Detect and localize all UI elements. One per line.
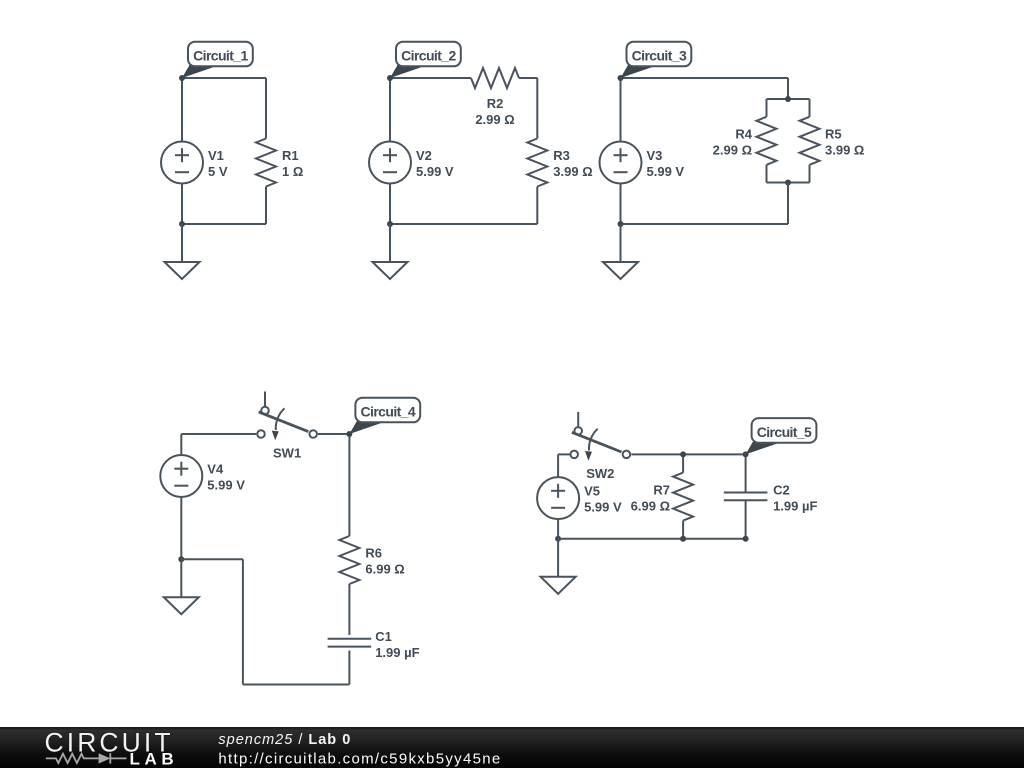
junction R7 bottom (680, 536, 686, 542)
wire bottom c2 (390, 223, 537, 225)
wire bottom c1 (182, 223, 266, 225)
svg-text:Circuit_3: Circuit_3 (632, 47, 687, 63)
svg-text:5.99 V: 5.99 V (647, 164, 685, 179)
node Circuit_2 anchor dot (387, 75, 393, 81)
wire V1 top lead (181, 78, 183, 142)
resistor R7 (673, 473, 693, 521)
wire R6 to C1 (348, 584, 350, 635)
ground (541, 539, 576, 594)
svg-text:LAB: LAB (130, 750, 179, 768)
wire R5 top lead (809, 99, 811, 117)
svg-text:5.99 V: 5.99 V (416, 164, 454, 179)
wire R3 bottom (536, 187, 538, 225)
junction (555, 536, 561, 542)
svg-text:5.99 V: 5.99 V (584, 500, 622, 515)
resistor R3 (527, 139, 547, 187)
switch SW1 left contact (257, 430, 265, 438)
switch SW2 right contact (623, 451, 631, 459)
wire C1 bottom lead (348, 651, 350, 685)
wire V5 top lead (557, 454, 559, 477)
wire C2 top lead (745, 454, 747, 492)
logo schematic line with resistor and diode (46, 753, 127, 763)
ground (165, 224, 200, 279)
junction (178, 556, 184, 562)
wire SW1 to node4 (318, 433, 349, 435)
wire parallel bottom bar (767, 182, 810, 184)
resistor R6 (339, 536, 359, 584)
svg-text:R5: R5 (825, 127, 842, 142)
voltage source V3 (600, 142, 642, 184)
switch SW2 top terminal stub (577, 412, 579, 427)
svg-text:R7: R7 (653, 483, 670, 498)
wire node2 to R2 (390, 77, 471, 79)
node Circuit_4 anchor dot (346, 431, 352, 437)
svg-text:V5: V5 (584, 484, 600, 499)
svg-text:Circuit_2: Circuit_2 (401, 47, 456, 63)
junction R7 top (680, 451, 686, 457)
node flag Circuit_3 (621, 65, 654, 78)
resistor R1 (256, 139, 276, 187)
switch SW2 toggle arrow (589, 429, 598, 451)
capacitor C2 (724, 493, 768, 501)
svg-text:R2: R2 (487, 96, 504, 111)
ground (164, 559, 199, 614)
svg-text:http://circuitlab.com/c59kxb5y: http://circuitlab.com/c59kxb5yy45ne (218, 751, 501, 768)
wire bottom c3 (621, 223, 789, 225)
junction (179, 221, 185, 227)
wire V4 bottom lead (180, 497, 182, 559)
svg-text:5.99 V: 5.99 V (207, 478, 245, 493)
wire R4 bottom lead (766, 165, 768, 183)
svg-text:SW2: SW2 (586, 466, 614, 481)
wire to R1 top (265, 78, 267, 139)
svg-text:spencm25 / Lab 0: spencm25 / Lab 0 (218, 732, 351, 748)
wire R5 bottom lead (809, 165, 811, 183)
wire R1 bottom (265, 187, 267, 225)
wire parallel top bar (767, 98, 810, 100)
junction (387, 221, 393, 227)
wire R2 to corner (519, 77, 537, 79)
svg-text:V1: V1 (208, 148, 224, 163)
switch SW1 top contact (261, 407, 269, 415)
svg-text:1.99 µF: 1.99 µF (375, 645, 419, 660)
wire branch down (242, 559, 244, 684)
resistor R4 (757, 117, 777, 165)
svg-text:6.99 Ω: 6.99 Ω (631, 499, 670, 514)
wire V4 to SW1 (181, 433, 256, 435)
ground (603, 224, 638, 279)
svg-text:Circuit_4: Circuit_4 (361, 403, 416, 419)
svg-text:V2: V2 (416, 148, 432, 163)
svg-text:2.99 Ω: 2.99 Ω (475, 112, 514, 127)
wire branch to C1 (243, 684, 350, 686)
wire V4 top lead (180, 434, 182, 455)
svg-text:SW1: SW1 (273, 446, 301, 461)
switch SW1 lever (259, 412, 309, 432)
svg-text:C2: C2 (773, 483, 790, 498)
switch SW1 toggle arrow (276, 408, 285, 430)
wire V5 bottom lead (557, 519, 559, 539)
node flag Circuit_5 (746, 441, 779, 454)
svg-text:C1: C1 (375, 629, 392, 644)
wire V5 to SW2 (558, 453, 569, 455)
junction parallel top (785, 96, 791, 102)
svg-text:5 V: 5 V (208, 164, 228, 179)
svg-text:V3: V3 (647, 148, 663, 163)
wire bottom c5 (558, 538, 746, 540)
wire V3 top lead (620, 78, 622, 142)
voltage source V5 (537, 477, 579, 519)
wire down to parallel top (787, 78, 789, 99)
wire parallel to bottom (787, 183, 789, 225)
node Circuit_5 anchor dot (743, 451, 749, 457)
wire to R3 top (536, 78, 538, 139)
switch SW1 right contact (309, 430, 317, 438)
svg-text:R1: R1 (282, 148, 299, 163)
resistor R2 (471, 68, 519, 88)
svg-text:V4: V4 (207, 462, 224, 477)
svg-text:1.99 µF: 1.99 µF (773, 499, 817, 514)
svg-text:2.99 Ω: 2.99 Ω (713, 143, 752, 158)
junction C2 bottom (743, 536, 749, 542)
svg-text:3.99 Ω: 3.99 Ω (825, 143, 864, 158)
wire R7 top lead (682, 454, 684, 472)
svg-text:R6: R6 (365, 546, 382, 561)
wire V2 bottom lead (389, 184, 391, 225)
svg-text:Circuit_5: Circuit_5 (757, 424, 812, 440)
wire node4 to R6 (348, 434, 350, 536)
switch SW2 top contact (574, 427, 582, 435)
svg-text:R4: R4 (735, 127, 752, 142)
voltage source V1 (161, 142, 203, 184)
wire C2 bottom lead (745, 500, 747, 539)
resistor R5 (800, 117, 820, 165)
wire R7 bottom lead (682, 521, 684, 539)
voltage source V4 (160, 455, 202, 497)
wire V2 top lead (389, 78, 391, 142)
voltage source V2 (369, 142, 411, 184)
svg-text:Circuit_1: Circuit_1 (193, 47, 248, 63)
junction (618, 221, 624, 227)
wire SW2 to node5 (631, 453, 745, 455)
capacitor C1 (328, 639, 372, 647)
node flag Circuit_4 (349, 421, 382, 434)
wire node1 top (182, 77, 266, 79)
switch SW2 lever (572, 432, 622, 452)
node Circuit_1 anchor dot (179, 75, 185, 81)
svg-text:6.99 Ω: 6.99 Ω (365, 562, 404, 577)
wire R4 top lead (766, 99, 768, 117)
wire bottom branch right (181, 558, 243, 560)
switch SW2 left contact (570, 451, 578, 459)
svg-text:3.99 Ω: 3.99 Ω (553, 164, 592, 179)
svg-text:1 Ω: 1 Ω (282, 164, 303, 179)
ground (373, 224, 408, 279)
node flag Circuit_2 (390, 65, 423, 78)
junction parallel bottom (785, 180, 791, 186)
svg-text:R3: R3 (553, 148, 570, 163)
node flag Circuit_1 (182, 65, 215, 78)
node Circuit_3 anchor dot (618, 75, 624, 81)
wire V3 bottom lead (620, 184, 622, 225)
switch SW1 top terminal stub (264, 392, 266, 407)
wire V1 bottom lead (181, 184, 183, 225)
wire node3 top (621, 77, 789, 79)
